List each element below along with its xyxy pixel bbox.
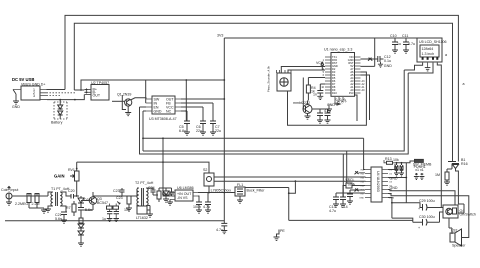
connector J1 USB: [13, 83, 76, 101]
wire piezo to U1: [281, 67, 325, 74]
svg-text:Speaker: Speaker: [452, 244, 466, 248]
svg-text:GND: GND: [384, 64, 392, 68]
switch SW1 membrane: [397, 159, 432, 179]
transistor Q1: [112, 93, 146, 113]
svg-text:D10: D10: [332, 91, 337, 95]
svg-text:RV1: RV1: [68, 168, 75, 172]
transistor Q4 block: [443, 204, 476, 218]
capacitor C16: [394, 162, 399, 176]
IC U1 MCU: [324, 48, 355, 97]
wire lcd sda: [404, 63, 422, 70]
svg-text:4.7u: 4.7u: [329, 209, 336, 213]
svg-text:Piezo_Sounder_4.0k: Piezo_Sounder_4.0k: [267, 65, 271, 92]
svg-text:2.2M: 2.2M: [32, 202, 40, 206]
wire opamp feed: [163, 138, 170, 196]
capacitor C7: [210, 121, 221, 135]
svg-text:GND: GND: [327, 103, 335, 107]
capacitor C13: [329, 193, 365, 213]
wire bottom bus: [5, 220, 224, 222]
pot GAIN: [54, 162, 79, 197]
svg-text:GND: GND: [12, 105, 20, 109]
svg-text:100n: 100n: [193, 205, 201, 209]
svg-text:C24: C24: [148, 186, 155, 190]
svg-text:1u: 1u: [397, 42, 401, 46]
capacitor C27: [198, 193, 235, 214]
svg-text:FL1: FL1: [237, 183, 243, 187]
svg-text:C20: C20: [68, 189, 75, 193]
wire U4 com staircase: [388, 198, 422, 223]
capacitor C10: [390, 34, 401, 53]
U4 right wires: [388, 163, 406, 203]
resistor R7: [66, 201, 76, 216]
net arrow U4 in6: [355, 189, 359, 192]
detector filter cluster: [102, 196, 123, 222]
svg-text:Buck_Filter: Buck_Filter: [247, 189, 266, 193]
capacitor C24: [148, 186, 158, 195]
svg-text:VCC: VCC: [316, 61, 324, 65]
svg-text:Battery: Battery: [51, 121, 63, 125]
U1 right pins: [348, 55, 365, 95]
capacitor C26: [193, 196, 202, 213]
svg-text:3V3: 3V3: [349, 91, 354, 95]
svg-text:GND: GND: [154, 110, 162, 114]
resistor R8: [79, 218, 83, 224]
capacitor C8: [313, 84, 325, 100]
svg-text:NC: NC: [166, 110, 172, 114]
capacitor C15: [347, 190, 365, 204]
svg-text:+: +: [418, 207, 420, 211]
capacitor C17: [399, 162, 404, 176]
svg-text:2.2MEG: 2.2MEG: [15, 202, 28, 206]
svg-text:5.6n: 5.6n: [55, 217, 62, 221]
svg-text:1M: 1M: [435, 173, 440, 177]
wire bus A: [288, 72, 367, 125]
diode D3: [78, 196, 89, 207]
svg-text:1n: 1n: [313, 93, 317, 97]
svg-text:LT1632: LT1632: [136, 216, 148, 220]
svg-text:R7: R7: [66, 206, 71, 210]
filter FL1: [211, 181, 413, 220]
net arrow U4 in2: [355, 171, 359, 174]
capacitor C21: [55, 212, 67, 223]
svg-text:SDA: SDA: [348, 182, 356, 186]
svg-text:C11: C11: [402, 34, 408, 38]
wire top inner frame: [74, 23, 452, 161]
opamp U7 box: [136, 206, 153, 221]
svg-text:DC 5V USB: DC 5V USB: [12, 77, 34, 82]
IC U3 boost: [140, 96, 182, 121]
GM sensor electrodes: [448, 158, 468, 169]
battery B1 diodes: [51, 100, 67, 125]
svg-text:U6 LM386: U6 LM386: [177, 186, 194, 190]
svg-text:Coin_Input: Coin_Input: [1, 188, 18, 192]
wire bus E: [140, 73, 409, 154]
wire fl1 to U4 in4: [214, 180, 365, 182]
capacitor C30 electrolytic: [413, 212, 443, 230]
wire U3 outputs: [181, 99, 224, 121]
svg-text:1u: 1u: [102, 217, 106, 221]
U1 left pins: [321, 55, 338, 95]
svg-text:GND: GND: [390, 186, 398, 190]
diode D5: [78, 228, 84, 235]
resistor R6: [29, 194, 44, 209]
wire piezo bottom: [287, 91, 289, 95]
resistor R9: [124, 196, 132, 212]
svg-text:Q1 2N39: Q1 2N39: [117, 93, 131, 97]
svg-text:GAIN: GAIN: [54, 174, 64, 179]
svg-text:1.3 inch: 1.3 inch: [422, 52, 435, 56]
wire top outer frame: [65, 15, 458, 161]
wire lcd scl: [408, 63, 433, 73]
capacitor C29 electrolytic: [418, 199, 443, 211]
capacitor C25: [166, 188, 175, 196]
capacitor C22: [78, 207, 92, 218]
resistor R15: [435, 164, 464, 205]
buzzer LS1 piezo sounder: [267, 65, 292, 92]
svg-text:a: a: [445, 53, 447, 57]
resistor R13: [384, 157, 399, 164]
vcc arrow U1: [316, 61, 325, 70]
resistor R5: [15, 194, 31, 209]
svg-text:LS2: LS2: [451, 229, 457, 233]
capacitor C14: [340, 197, 348, 209]
IC U6 LM386: [167, 186, 198, 205]
transistor Q3: [81, 192, 108, 210]
speaker LS2: [449, 213, 469, 248]
wire usb vbus: [47, 89, 66, 91]
ground diode chain: [80, 235, 82, 243]
svg-text:R16: R16: [461, 162, 468, 166]
svg-text:a: a: [463, 82, 465, 86]
LCD U5: [417, 38, 465, 86]
IC U4 driver: [359, 167, 394, 202]
wire bus B: [143, 111, 365, 170]
ground lone: [274, 229, 286, 241]
svg-text:C23: C23: [116, 196, 123, 200]
svg-text:5.6n: 5.6n: [85, 208, 92, 212]
wire usb gnd bottom: [47, 95, 84, 100]
capacitor C28: [216, 221, 227, 234]
capacitor C11: [402, 34, 415, 53]
capacitor C9: [312, 109, 324, 123]
capacitor C5: [179, 121, 190, 135]
capacitor C9b: [320, 109, 331, 123]
wire bus D: [143, 70, 404, 151]
wire U4 out2 to speaker: [388, 194, 469, 214]
svg-text:C30 100u: C30 100u: [419, 215, 435, 219]
svg-text:+: +: [418, 226, 420, 230]
svg-text:128x64: 128x64: [422, 47, 434, 51]
svg-text:VBUS GND D+: VBUS GND D+: [21, 83, 45, 87]
svg-text:4.7u: 4.7u: [203, 205, 210, 209]
svg-text:3V3: 3V3: [217, 34, 223, 38]
wire busD to Y2: [346, 151, 348, 183]
IC U2 charger: [74, 81, 109, 100]
svg-text:C29 100u: C29 100u: [419, 199, 435, 203]
svg-text:T1 PT_4uH: T1 PT_4uH: [51, 187, 70, 191]
svg-text:4.7u: 4.7u: [408, 42, 415, 46]
wire 3v3 rail: [224, 38, 442, 221]
svg-text:T2 PT_4uH: T2 PT_4uH: [135, 181, 154, 185]
ground Q1: [125, 113, 131, 116]
svg-text:R13: R13: [385, 157, 392, 161]
capacitor C20: [68, 189, 79, 199]
svg-text:U4 ULN2003: U4 ULN2003: [376, 171, 380, 192]
resistor R10: [157, 188, 169, 202]
svg-text:BC547: BC547: [97, 201, 108, 205]
svg-text:S2: S2: [203, 168, 207, 172]
wire S2 to U4 in3: [214, 176, 365, 179]
diode D6: [159, 188, 169, 202]
U1 right wires down: [355, 75, 370, 121]
diode D4: [78, 224, 84, 228]
svg-text:C10: C10: [390, 34, 397, 38]
svg-text:10k: 10k: [393, 158, 399, 162]
svg-text:U5 LCD_SH1106: U5 LCD_SH1106: [419, 40, 447, 44]
svg-text:x1 x1: x1 x1: [415, 168, 424, 172]
wire U4 out1 to driver: [388, 190, 455, 206]
wire 5v rail: [74, 80, 224, 121]
svg-text:GND: GND: [359, 198, 364, 200]
capacitor C12: [375, 55, 392, 68]
wire bus F: [77, 162, 209, 173]
ground amp in: [41, 208, 47, 213]
transformer T2: [135, 181, 154, 206]
resistor R4: [303, 78, 325, 110]
svg-text:GND: GND: [390, 177, 398, 181]
capacitor C6: [196, 121, 206, 135]
wire lcd cs long: [437, 63, 441, 208]
svg-text:3: 3: [33, 94, 35, 98]
svg-text:0.1u: 0.1u: [384, 59, 391, 63]
svg-text:U3 MT3608-A-47: U3 MT3608-A-47: [149, 117, 177, 121]
switch S2 box: [203, 168, 214, 193]
svg-text:U1 nano_esp_3.3: U1 nano_esp_3.3: [324, 48, 352, 52]
crystal Y2: [343, 178, 365, 197]
amp input connector: [1, 187, 48, 206]
svg-text:C23: C23: [113, 189, 120, 193]
svg-text:-IN VS: -IN VS: [177, 196, 188, 200]
transformer T1: [45, 187, 71, 212]
svg-text:OUT: OUT: [93, 94, 101, 98]
wire amp mid: [93, 190, 137, 196]
capacitor C23: [113, 188, 125, 194]
svg-text:4.7u: 4.7u: [216, 228, 223, 232]
svg-text:PE: PE: [280, 229, 285, 233]
U1 bottom pins: [326, 97, 348, 112]
ground usb: [12, 90, 20, 110]
svg-text:L7805CVxxx_: L7805CVxxx_: [211, 189, 234, 193]
wire busE to C14: [342, 154, 344, 197]
net arrow A5: [361, 38, 375, 66]
transistor Q2 NPN: [293, 101, 312, 120]
